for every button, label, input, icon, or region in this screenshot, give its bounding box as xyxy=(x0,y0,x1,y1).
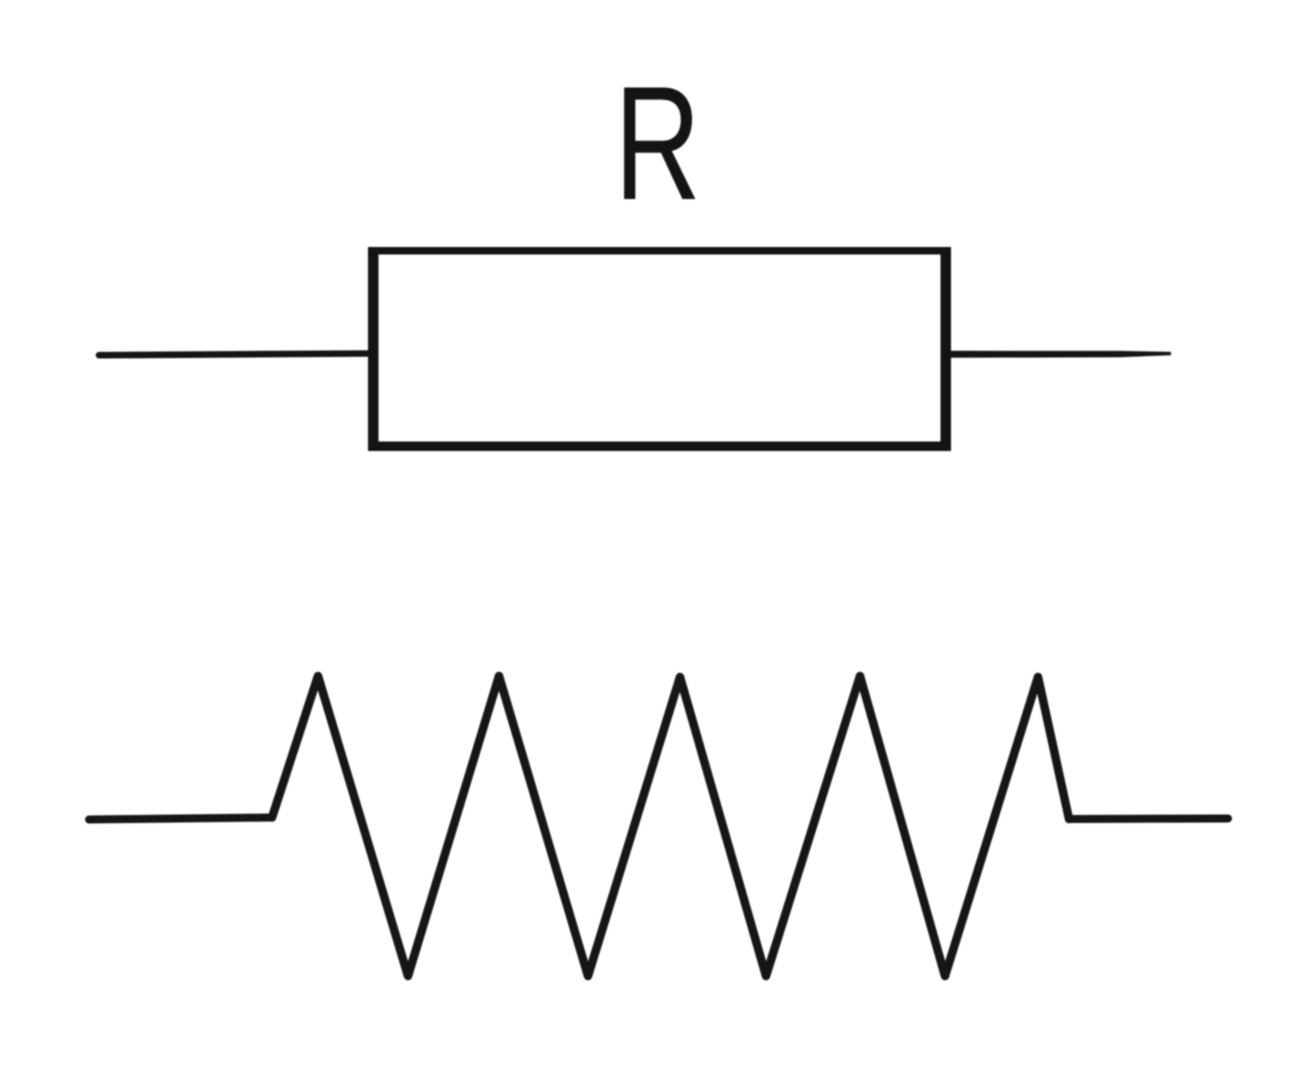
resistor (ANSI zigzag body) xyxy=(272,676,1069,976)
svg-text:R: R xyxy=(614,53,701,234)
wire (left lead of zigzag resistor) xyxy=(89,818,272,820)
resistor R (IEC rectangular body) xyxy=(368,247,951,451)
wire (right lead of rectangular resistor) xyxy=(951,351,1171,358)
wire (right lead of zigzag resistor) xyxy=(1069,815,1228,824)
label R (value label of rectangular resistor) xyxy=(614,53,701,234)
wire (left lead of rectangular resistor) xyxy=(99,354,368,356)
